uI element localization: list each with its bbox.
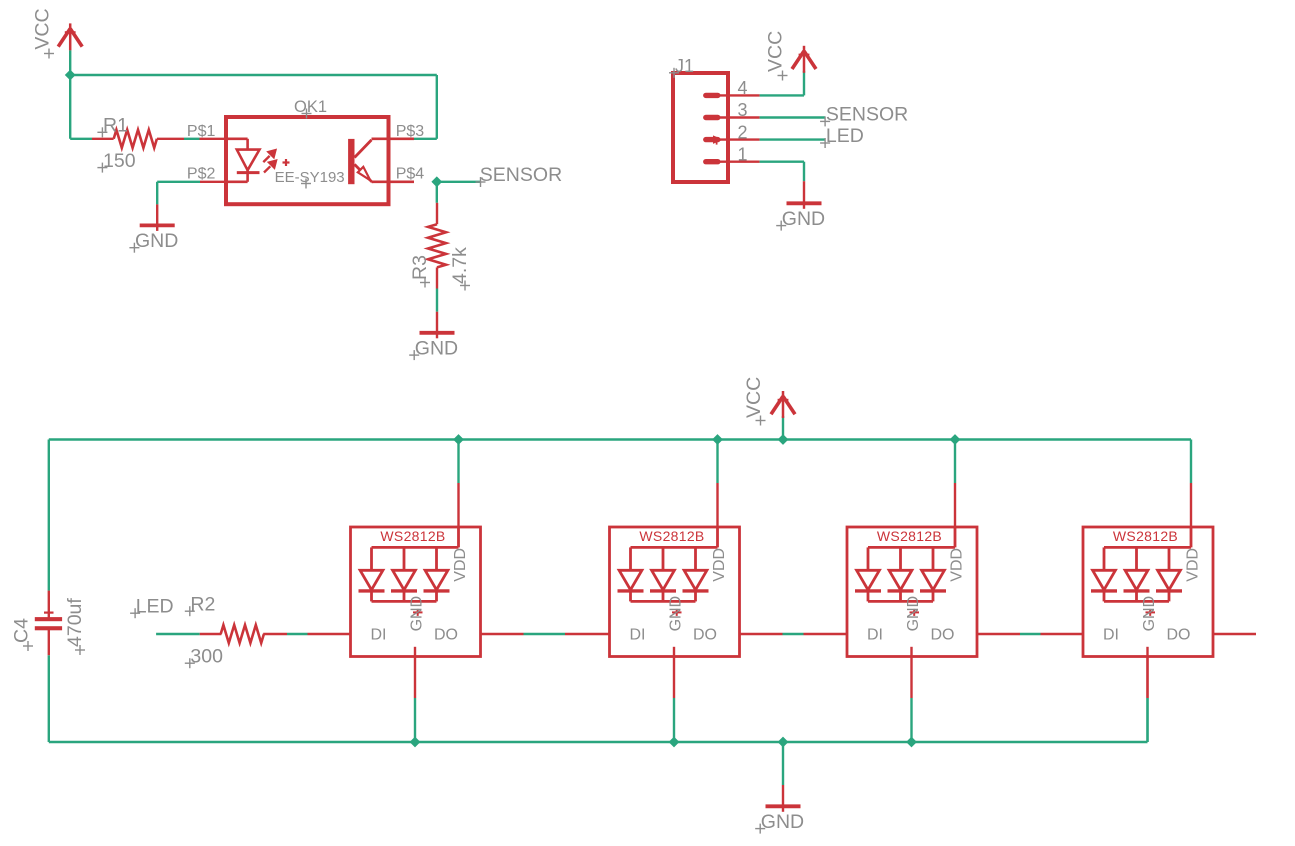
svg-text:LED: LED	[136, 595, 174, 617]
svg-text:GND: GND	[1141, 596, 1158, 632]
svg-text:VCC: VCC	[31, 8, 53, 49]
svg-text:LED: LED	[826, 125, 864, 147]
svg-text:150: 150	[103, 150, 136, 172]
svg-text:R2: R2	[190, 593, 215, 615]
svg-text:GND: GND	[408, 596, 425, 632]
svg-text:VDD: VDD	[711, 548, 728, 582]
svg-text:DI: DI	[1103, 626, 1119, 643]
svg-text:4.7k: 4.7k	[449, 247, 471, 284]
svg-text:WS2812B: WS2812B	[380, 528, 445, 544]
svg-text:DO: DO	[931, 626, 955, 643]
svg-text:SENSOR: SENSOR	[826, 103, 908, 125]
svg-text:DO: DO	[434, 626, 458, 643]
svg-text:300: 300	[190, 645, 223, 667]
svg-text:R1: R1	[103, 115, 128, 137]
svg-text:VDD: VDD	[949, 548, 966, 582]
svg-text:WS2812B: WS2812B	[639, 528, 704, 544]
svg-text:WS2812B: WS2812B	[877, 528, 942, 544]
svg-text:DI: DI	[867, 626, 883, 643]
svg-text:DI: DI	[371, 626, 387, 643]
svg-text:GND: GND	[667, 596, 684, 632]
svg-text:R3: R3	[409, 255, 431, 280]
svg-text:P$4: P$4	[396, 166, 425, 183]
svg-text:1: 1	[738, 144, 748, 164]
svg-text:DO: DO	[693, 626, 717, 643]
svg-text:VDD: VDD	[452, 548, 469, 582]
svg-text:GND: GND	[782, 208, 825, 230]
svg-text:C4: C4	[10, 618, 32, 643]
svg-text:SENSOR: SENSOR	[480, 164, 562, 186]
svg-text:DO: DO	[1167, 626, 1191, 643]
svg-text:P$2: P$2	[187, 166, 216, 183]
svg-text:VCC: VCC	[765, 31, 787, 72]
svg-text:GND: GND	[905, 596, 922, 632]
svg-text:3: 3	[738, 100, 748, 120]
svg-text:GND: GND	[415, 337, 458, 359]
svg-text:WS2812B: WS2812B	[1113, 528, 1178, 544]
svg-text:4: 4	[738, 78, 748, 98]
svg-text:P$1: P$1	[187, 123, 216, 140]
svg-text:GND: GND	[761, 811, 804, 833]
svg-text:2: 2	[738, 122, 748, 142]
svg-text:VCC: VCC	[743, 377, 765, 418]
svg-text:P$3: P$3	[396, 123, 425, 140]
svg-text:VDD: VDD	[1185, 548, 1202, 582]
svg-text:GND: GND	[135, 230, 178, 252]
svg-text:470uf: 470uf	[64, 598, 86, 647]
svg-text:DI: DI	[630, 626, 646, 643]
